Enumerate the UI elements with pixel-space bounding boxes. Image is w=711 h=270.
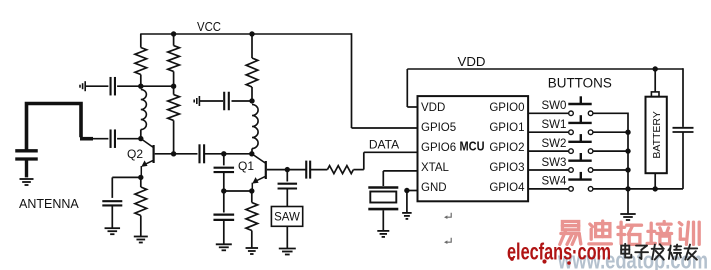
svg-text:XTAL: XTAL bbox=[421, 162, 450, 174]
capacitor C4 (emitter bypass) bbox=[102, 201, 122, 228]
net DATA label bbox=[369, 138, 399, 152]
crystal Y1 bbox=[368, 171, 398, 231]
svg-text:SW4: SW4 bbox=[542, 176, 568, 188]
wire DATA jog bbox=[353, 152, 417, 169]
svg-text:GND: GND bbox=[421, 182, 447, 194]
node Colpitts mid bbox=[221, 188, 226, 193]
capacitor C2 (antenna coupling) bbox=[92, 129, 141, 148]
watermark elecfans.com bbox=[507, 239, 611, 265]
node bus-SW4 junction bbox=[625, 186, 630, 191]
svg-text:GPIO6: GPIO6 bbox=[421, 142, 456, 154]
net VCC label bbox=[197, 19, 221, 34]
transistor Q2 bbox=[127, 139, 154, 177]
node rail-battery junction bbox=[653, 186, 658, 191]
wire Q1 base bbox=[267, 169, 306, 171]
wire GND pin bbox=[407, 190, 418, 192]
antenna bbox=[19, 104, 93, 212]
svg-text:SW2: SW2 bbox=[542, 138, 567, 150]
return mark 1 bbox=[444, 213, 451, 219]
capacitor C9 (SAW coupling) bbox=[278, 170, 298, 207]
MCU U1 box bbox=[418, 96, 529, 201]
ground (R6) bbox=[246, 248, 258, 254]
transistor Q1 bbox=[238, 154, 266, 191]
resistor R2 bbox=[168, 34, 180, 86]
wire XTAL pin bbox=[383, 170, 417, 172]
svg-text:DATA: DATA bbox=[369, 138, 399, 152]
svg-text:MCU: MCU bbox=[460, 139, 485, 154]
node bus-SW3 junction bbox=[625, 167, 630, 172]
capacitor C5 (coupling) bbox=[200, 144, 252, 163]
svg-text:VCC: VCC bbox=[197, 19, 221, 34]
svg-text:VDD: VDD bbox=[421, 102, 445, 114]
svg-text:VDD: VDD bbox=[458, 54, 486, 69]
svg-text:GPIO5: GPIO5 bbox=[421, 122, 456, 134]
return mark 2 bbox=[444, 238, 451, 244]
capacitor C6 bbox=[214, 168, 235, 191]
svg-text:elecfans·com: elecfans·com bbox=[507, 239, 611, 265]
ground (C4) bbox=[105, 228, 121, 234]
wire Colpitts mid to Q1 emitter bbox=[224, 190, 252, 192]
switch SW3 bbox=[528, 153, 628, 172]
switch SW4 bbox=[528, 172, 628, 191]
ground (R4) bbox=[134, 237, 148, 243]
capacitor C1 (node A bypass) bbox=[111, 77, 115, 96]
resistor R4 (Q2 emitter) bbox=[135, 177, 147, 236]
MCU U1 labels bbox=[421, 102, 525, 194]
BUTTONS label bbox=[548, 76, 612, 91]
wire VDD rail bbox=[407, 69, 683, 107]
wire Q2 base bbox=[155, 153, 198, 155]
ground (antenna) bbox=[20, 179, 34, 185]
node Q1 collector bbox=[249, 151, 254, 156]
svg-text:GPIO4: GPIO4 bbox=[489, 182, 525, 194]
watermark CJK dark bbox=[621, 244, 697, 260]
wire node-A line bbox=[86, 85, 174, 87]
svg-text:BATTERY: BATTERY bbox=[651, 111, 663, 158]
ground (C1, sideways) bbox=[80, 81, 85, 91]
wire to C6 bbox=[223, 154, 225, 166]
svg-text:SAW: SAW bbox=[274, 212, 300, 224]
svg-text:Q2: Q2 bbox=[127, 147, 143, 161]
node C bbox=[249, 98, 254, 103]
node VCC-R5 junction bbox=[249, 31, 254, 36]
svg-text:GPIO2: GPIO2 bbox=[489, 142, 524, 154]
capacitor C3 (antenna shunt) bbox=[15, 151, 38, 178]
inductor L1 bbox=[141, 90, 147, 139]
svg-text:GPIO0: GPIO0 bbox=[489, 102, 524, 114]
switch SW2 bbox=[528, 134, 628, 153]
net VDD label bbox=[458, 54, 486, 69]
watermark elecfans drips bbox=[510, 257, 571, 265]
wire GND stem bbox=[406, 191, 408, 213]
node VCC-R2 junction bbox=[171, 31, 176, 36]
node Q1 base junction bbox=[285, 167, 290, 172]
ground (MCU GND) bbox=[402, 213, 412, 219]
switch SW1 bbox=[528, 115, 628, 134]
wire VCC rail bbox=[140, 33, 417, 128]
ground (crystal) bbox=[377, 231, 389, 237]
svg-text:GPIO3: GPIO3 bbox=[489, 162, 524, 174]
svg-text:SW0: SW0 bbox=[542, 100, 567, 112]
wire bottom rail bbox=[628, 188, 683, 190]
resistor R6 (Q1 emitter) bbox=[246, 191, 258, 248]
svg-text:SW3: SW3 bbox=[542, 157, 567, 169]
node bus-SW1 junction bbox=[625, 130, 630, 135]
capacitor C10 (DATA series) bbox=[306, 161, 327, 179]
ground (C7) bbox=[216, 244, 232, 250]
node bus-SW2 junction bbox=[625, 148, 630, 153]
svg-text:GPIO1: GPIO1 bbox=[489, 122, 524, 134]
node Q1 emitter bbox=[249, 188, 254, 193]
capacitor C8 (node C bypass) bbox=[224, 92, 229, 111]
svg-text:ANTENNA: ANTENNA bbox=[19, 197, 79, 211]
resistor R7 (DATA series) bbox=[327, 166, 353, 174]
ground (buttons bus) bbox=[620, 214, 635, 220]
node B bbox=[171, 84, 176, 89]
node Colpitts top bbox=[221, 151, 226, 156]
ground (SAW) bbox=[279, 249, 296, 255]
battery BT1 bbox=[646, 69, 667, 189]
watermark red CJK bbox=[560, 221, 699, 244]
watermark www.edatop.com bbox=[557, 248, 708, 270]
wire buttons bus bbox=[627, 113, 629, 214]
node A bbox=[138, 84, 143, 89]
resistor R1 bbox=[135, 48, 147, 87]
svg-text:BUTTONS: BUTTONS bbox=[548, 76, 612, 91]
resistor R3 bbox=[168, 86, 180, 154]
inductor L2 bbox=[252, 105, 258, 154]
wire node-C line bbox=[200, 100, 252, 102]
capacitor C11 (supply decoupling) bbox=[673, 68, 694, 189]
svg-text:Q1: Q1 bbox=[238, 159, 254, 173]
ground (C8, sideways) bbox=[194, 96, 199, 106]
node Q2 emitter bbox=[138, 175, 143, 180]
node VDD-battery junction bbox=[653, 66, 658, 71]
node GND junction bbox=[404, 188, 409, 193]
svg-text:SW1: SW1 bbox=[542, 119, 567, 131]
SAW resonator bbox=[271, 207, 302, 249]
node Q2 collector bbox=[138, 136, 143, 141]
resistor R5 (Q1 collector bias) bbox=[246, 34, 258, 101]
switch SW0 bbox=[528, 96, 628, 115]
node base-divider junction bbox=[171, 151, 176, 156]
capacitor C7 bbox=[213, 191, 234, 244]
wire emitter to C4 bbox=[112, 177, 141, 198]
